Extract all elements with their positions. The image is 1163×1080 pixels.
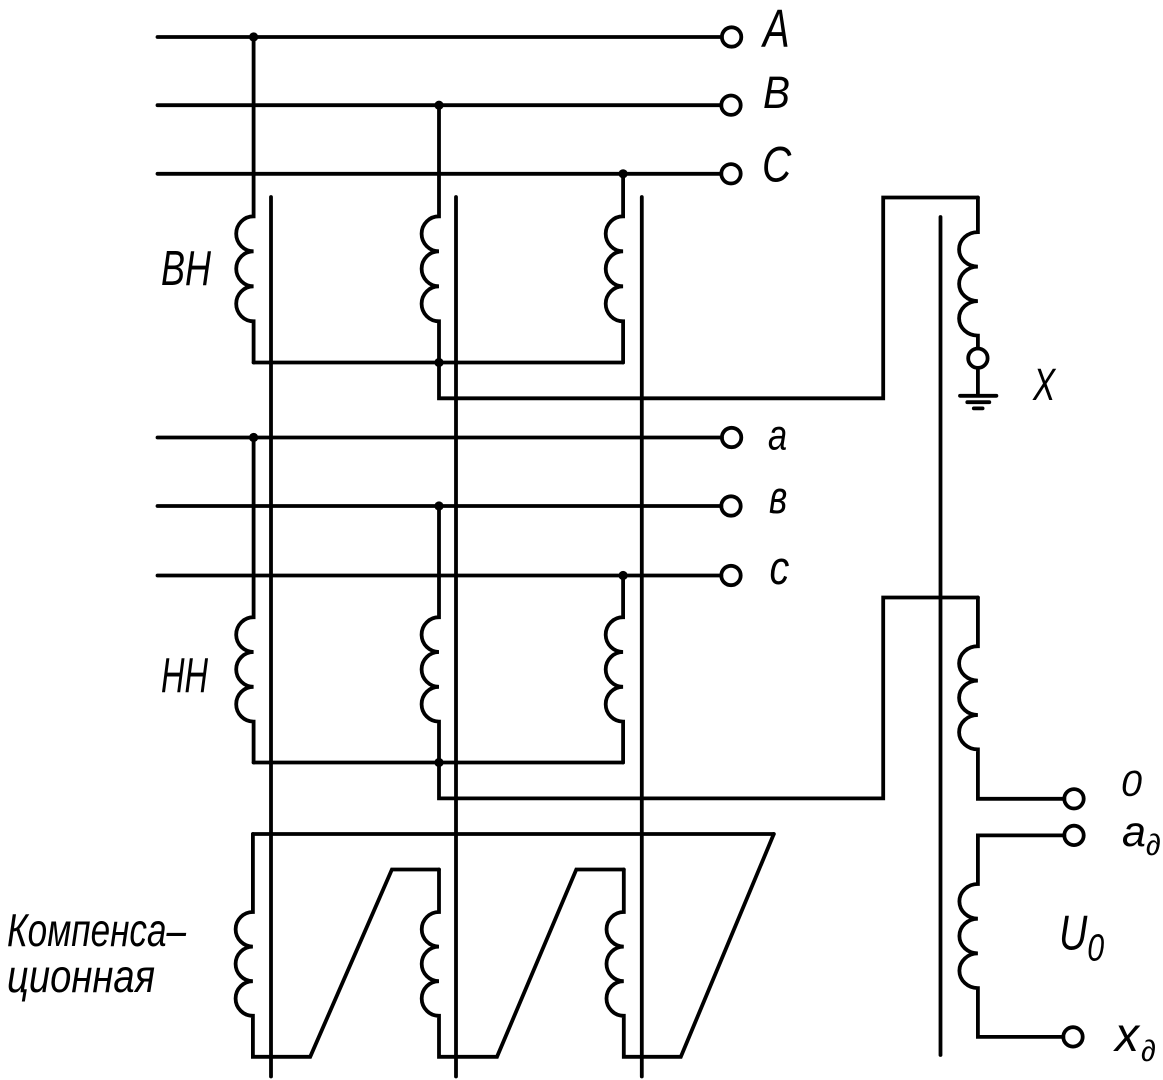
svg-text:a∂: a∂ bbox=[1122, 808, 1161, 862]
wire X to ground bbox=[976, 368, 980, 394]
svg-text:C: C bbox=[762, 136, 792, 192]
terminal a_d bbox=[1064, 826, 1083, 845]
junction HV neutral bbox=[434, 358, 443, 367]
winding compensation phase 2 bbox=[422, 870, 624, 1057]
terminal X bbox=[968, 349, 987, 368]
terminal a bbox=[722, 428, 741, 447]
winding LV phase A bbox=[236, 438, 253, 763]
svg-text:a: a bbox=[768, 412, 787, 459]
winding compensation phase 1 bbox=[236, 834, 439, 1057]
svg-text:0: 0 bbox=[1121, 763, 1142, 804]
winding HV phase B bbox=[422, 105, 439, 362]
wire secondary bus a bbox=[158, 436, 722, 440]
core limb 1 bbox=[269, 197, 273, 1077]
junction line b / LV phase B bbox=[434, 501, 443, 510]
winding compensation phase 3 bbox=[607, 834, 774, 1057]
svg-text:ционная: ционная bbox=[7, 950, 155, 1002]
svg-text:B: B bbox=[763, 68, 790, 118]
wire secondary bus b bbox=[158, 504, 722, 508]
terminal A bbox=[722, 27, 741, 46]
junction LV neutral bbox=[434, 758, 443, 767]
winding HV phase C bbox=[606, 174, 623, 363]
winding LV phase C bbox=[606, 576, 623, 763]
core limb right bbox=[939, 217, 943, 1055]
winding common O bbox=[959, 598, 1064, 799]
core limb 3 bbox=[640, 197, 644, 1077]
terminal C bbox=[721, 164, 740, 183]
wire HV neutral bus bbox=[254, 361, 623, 365]
wire LV neutral to common winding bbox=[439, 598, 978, 799]
wire HV neutral to series winding bbox=[439, 198, 978, 399]
junction line A / HV phase A bbox=[249, 32, 258, 41]
terminal x_d bbox=[1063, 1027, 1082, 1046]
svg-text:c: c bbox=[770, 543, 790, 595]
wire phase bus A bbox=[158, 35, 722, 39]
svg-text:x∂: x∂ bbox=[1113, 1009, 1156, 1068]
winding HV phase A bbox=[236, 37, 253, 363]
svg-text:в: в bbox=[769, 471, 787, 523]
wire LV neutral bus bbox=[254, 761, 623, 765]
junction line c / LV phase C bbox=[619, 571, 628, 580]
wire phase bus B bbox=[158, 103, 722, 107]
svg-text:НН: НН bbox=[161, 649, 208, 703]
svg-text:A: A bbox=[760, 0, 789, 60]
winding U0 bbox=[959, 835, 1064, 1037]
wire phase bus C bbox=[158, 172, 722, 176]
svg-text:Компенса–: Компенса– bbox=[7, 904, 186, 956]
ground bbox=[960, 396, 996, 409]
terminal c bbox=[721, 566, 740, 585]
svg-text:X: X bbox=[1032, 360, 1056, 410]
terminal B bbox=[721, 96, 740, 115]
svg-text:U0: U0 bbox=[1059, 906, 1104, 969]
winding LV phase B bbox=[422, 506, 439, 763]
svg-text:ВН: ВН bbox=[161, 242, 211, 296]
junction line B / HV phase B bbox=[434, 101, 443, 110]
junction line C / HV phase C bbox=[619, 169, 628, 178]
winding series X bbox=[959, 198, 978, 349]
terminal O bbox=[1064, 789, 1083, 808]
junction line a / LV phase A bbox=[249, 433, 258, 442]
wire compensation delta top bbox=[253, 832, 774, 836]
terminal b bbox=[721, 496, 740, 515]
wire secondary bus c bbox=[158, 574, 722, 578]
core limb 2 bbox=[454, 197, 458, 1077]
